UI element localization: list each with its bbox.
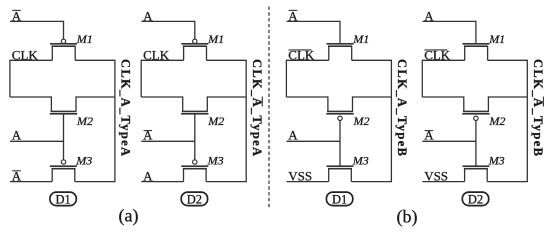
svg-text:CLK_A_TypeA: CLK_A_TypeA: [250, 59, 264, 156]
node net name CLK_A_TypeB vertical label: [531, 59, 545, 156]
transistor M1: [327, 32, 370, 60]
node A top input label: [424, 8, 434, 23]
transistor M2: [50, 111, 93, 128]
wire top input to M1 gate: [287, 21, 341, 44]
wire M2 gate to M3 gate: [339, 121, 341, 167]
node caption (a): [119, 205, 139, 226]
wire CLK rail: [286, 59, 391, 61]
wire right rail: [390, 60, 392, 182]
wire middle input to gate column: [422, 140, 476, 142]
node CLK label: [143, 48, 170, 63]
wire top input to M1 gate: [141, 21, 195, 39]
wire left branch: [422, 60, 464, 112]
svg-text:M3: M3: [488, 153, 505, 167]
node A bottom label: [143, 169, 153, 184]
node output D1: [326, 192, 352, 206]
wire bottom rail: [422, 181, 528, 183]
node A-bar middle input label: [424, 128, 434, 143]
wire bottom rail: [141, 181, 247, 183]
node caption (b): [397, 206, 418, 227]
wire right branch: [76, 96, 115, 111]
node VSS bottom label: [288, 169, 312, 184]
svg-text:M1: M1: [352, 32, 369, 46]
node net name CLK_A_TypeA vertical label: [250, 59, 264, 156]
node A-bar top input label: [288, 8, 298, 23]
node net name CLK_A_TypeA vertical label: [119, 59, 133, 156]
transistor M3: [327, 153, 369, 181]
svg-text:D2: D2: [468, 192, 483, 206]
wire right rail: [114, 60, 116, 182]
wire CLK rail: [10, 59, 115, 61]
divider dashed line between part a and part b: [268, 7, 270, 209]
svg-text:A: A: [424, 128, 434, 143]
svg-text:(b): (b): [397, 206, 418, 227]
svg-text:A: A: [12, 128, 22, 143]
wire left branch: [141, 60, 183, 112]
wire top input to M1 gate: [10, 21, 64, 39]
wire left branch: [286, 60, 328, 112]
svg-text:M2: M2: [76, 114, 93, 128]
node CLK label: [288, 48, 315, 63]
wire CLK rail: [422, 59, 527, 61]
svg-text:(a): (a): [119, 205, 139, 226]
wire left branch: [10, 60, 52, 112]
transistor M3: [181, 153, 223, 181]
node A top input label: [143, 8, 153, 23]
wire right branch: [488, 96, 527, 111]
node output D1: [50, 192, 76, 206]
svg-text:CLK_A_TypeB: CLK_A_TypeB: [395, 59, 409, 156]
wire bottom rail: [287, 181, 393, 183]
svg-text:M3: M3: [352, 153, 369, 167]
svg-text:D1: D1: [332, 192, 347, 206]
transistor M1: [462, 32, 505, 60]
wire M2 gate to M3 gate: [194, 114, 196, 160]
wire M2 gate to M3 gate: [475, 121, 477, 167]
node A-bar bottom label: [12, 169, 22, 184]
transistor M1: [181, 32, 224, 60]
node CLK label: [424, 48, 451, 63]
svg-text:M3: M3: [207, 153, 224, 167]
transistor M2: [326, 111, 369, 128]
wire top input to M1 gate: [422, 21, 476, 44]
transistor M1: [50, 32, 93, 60]
svg-text:M1: M1: [207, 32, 224, 46]
svg-text:CLK_A_TypeB: CLK_A_TypeB: [531, 59, 545, 156]
wire right rail: [526, 60, 528, 182]
transistor M2: [462, 111, 505, 128]
svg-text:M2: M2: [207, 114, 224, 128]
node A-bar top input label: [12, 8, 22, 23]
svg-text:A: A: [143, 128, 153, 143]
node output D2: [462, 192, 488, 206]
wire right rail: [245, 60, 247, 182]
svg-text:M1: M1: [488, 32, 505, 46]
svg-text:A: A: [288, 128, 298, 143]
wire middle input to gate column: [10, 140, 64, 142]
node output D2: [181, 192, 207, 206]
transistor M3: [50, 153, 92, 181]
node A middle input label: [288, 128, 298, 143]
node A middle input label: [12, 128, 22, 143]
wire CLK rail: [141, 59, 246, 61]
svg-text:CLK_A_TypeA: CLK_A_TypeA: [119, 59, 133, 156]
wire right branch: [207, 96, 246, 111]
node A-bar middle input label: [143, 128, 153, 143]
transistor M3: [462, 153, 504, 181]
wire M2 gate to M3 gate: [63, 114, 65, 160]
svg-text:M2: M2: [353, 114, 370, 128]
node CLK label: [12, 48, 39, 63]
wire middle input to gate column: [141, 140, 195, 142]
svg-text:M2: M2: [488, 114, 505, 128]
svg-text:D1: D1: [55, 192, 70, 206]
transistor M2: [181, 111, 224, 128]
svg-text:M1: M1: [76, 32, 93, 46]
svg-text:D2: D2: [187, 192, 202, 206]
wire middle input to gate column: [287, 140, 341, 142]
node net name CLK_A_TypeB vertical label: [395, 59, 409, 156]
svg-text:M3: M3: [75, 153, 92, 167]
wire right branch: [353, 96, 392, 111]
node VSS bottom label: [424, 169, 448, 184]
wire bottom rail: [10, 181, 116, 183]
